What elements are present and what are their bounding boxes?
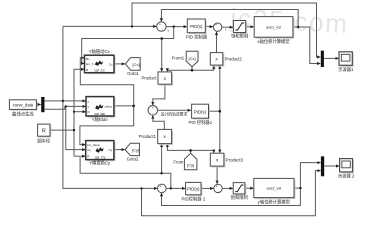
svg-text:x轴位移计算模型: x轴位移计算模型 — [257, 38, 290, 45]
svg-text:Cy: Cy — [109, 148, 113, 152]
svg-text:+: + — [159, 22, 161, 26]
svg-text:From: From — [173, 160, 183, 165]
svg-text:圆半径: 圆半径 — [37, 137, 51, 144]
svg-text:y轴位移计算模型: y轴位移计算模型 — [258, 198, 291, 205]
svg-text:cal_tan: cal_tan — [94, 112, 105, 116]
svg-text:Y横摆角Cy: Y横摆角Cy — [89, 159, 111, 166]
svg-text:Product: Product — [141, 76, 157, 81]
svg-text:PID控制器 2: PID控制器 2 — [181, 196, 205, 203]
svg-text:Bx: Bx — [86, 57, 90, 61]
svg-text:_theta: _theta — [102, 105, 112, 109]
svg-text:PID 控制器1: PID 控制器1 — [188, 119, 212, 126]
svg-text:Cx: Cx — [109, 62, 113, 66]
svg-text:km_h: km_h — [86, 62, 94, 66]
svg-text:[Cx]: [Cx] — [132, 62, 139, 67]
svg-text:Y轴随动Cx: Y轴随动Cx — [89, 48, 111, 55]
svg-text:PID(s): PID(s) — [190, 24, 203, 29]
svg-text:PID(s): PID(s) — [187, 187, 200, 192]
svg-text:Y轴Etan: Y轴Etan — [92, 116, 109, 123]
svg-text:曲线点生成: 曲线点生成 — [12, 111, 34, 118]
svg-text:cal_Cy: cal_Cy — [95, 156, 106, 160]
svg-text:示波器1: 示波器1 — [338, 66, 354, 73]
svg-text:From1: From1 — [172, 56, 185, 61]
svg-text:饱和限制: 饱和限制 — [231, 33, 248, 40]
svg-text:Product3: Product3 — [226, 157, 244, 162]
svg-text:设计的轨迹要求: 设计的轨迹要求 — [161, 112, 188, 117]
svg-text:PID(s): PID(s) — [194, 109, 207, 114]
svg-text:curve_data: curve_data — [13, 102, 34, 107]
svg-text:+: + — [215, 23, 217, 27]
svg-text:axs1_vsl: axs1_vsl — [266, 26, 281, 30]
svg-text:Cy: Cy — [87, 148, 91, 152]
svg-text:Goto2: Goto2 — [127, 156, 139, 161]
svg-text:R: R — [42, 128, 46, 134]
svg-text:[Cy]: [Cy] — [187, 162, 194, 167]
svg-text:饱和限制: 饱和限制 — [231, 194, 248, 201]
svg-text:+: + — [152, 106, 154, 110]
svg-text:+: + — [215, 184, 217, 188]
svg-text:km_theta: km_theta — [87, 143, 100, 147]
svg-text:Goto1: Goto1 — [127, 71, 139, 76]
svg-text:Product2: Product2 — [225, 57, 243, 62]
svg-text:+: + — [159, 184, 161, 188]
svg-text:[Cy]: [Cy] — [132, 147, 139, 152]
svg-text:cal_Cx: cal_Cx — [94, 69, 105, 73]
svg-text:axs2_vsl: axs2_vsl — [267, 187, 282, 191]
svg-text:PID 控制器: PID 控制器 — [186, 34, 208, 41]
svg-text:示波器 2: 示波器 2 — [338, 172, 355, 179]
svg-text:Product1: Product1 — [139, 134, 157, 139]
svg-text:[Cx]: [Cx] — [189, 56, 196, 61]
